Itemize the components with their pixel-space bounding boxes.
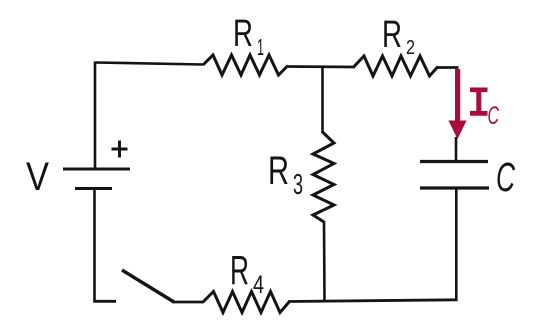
wire junction down to R3	[321, 66, 324, 133]
svg-text:1: 1	[257, 34, 264, 60]
svg-text:V: V	[26, 155, 49, 199]
wire left vertical (battery bottom)	[93, 189, 96, 303]
wire arrow tip to capacitor top plate	[455, 137, 458, 161]
resistor R2	[354, 14, 438, 76]
current arrow IC	[448, 69, 499, 139]
wire R2 to top-right corner	[437, 66, 459, 69]
wire left vertical (battery top)	[94, 62, 97, 170]
resistor R4	[203, 247, 289, 313]
wire bottom-left stub	[94, 300, 117, 303]
svg-text:2: 2	[406, 37, 415, 59]
svg-text:R: R	[230, 247, 249, 293]
wire bottom right run	[288, 300, 458, 302]
svg-text:3: 3	[293, 169, 303, 201]
wire R1 to R2	[286, 65, 355, 68]
battery V	[26, 141, 130, 200]
resistor R3	[268, 132, 334, 222]
svg-text:C: C	[496, 154, 515, 200]
wire R3 bottom to bottom wire	[323, 221, 326, 301]
wire switch to R4	[172, 301, 204, 304]
svg-text:C: C	[488, 102, 500, 130]
wire top-left horizontal	[95, 63, 203, 65]
wire right vertical (capacitor to bottom)	[455, 189, 458, 301]
capacitor C	[420, 154, 515, 200]
svg-text:4: 4	[253, 271, 264, 299]
svg-text:R: R	[233, 13, 253, 55]
svg-text:R: R	[382, 14, 402, 56]
resistor R1	[203, 13, 288, 75]
svg-text:R: R	[268, 149, 289, 193]
switch S (open blade)	[122, 270, 174, 302]
